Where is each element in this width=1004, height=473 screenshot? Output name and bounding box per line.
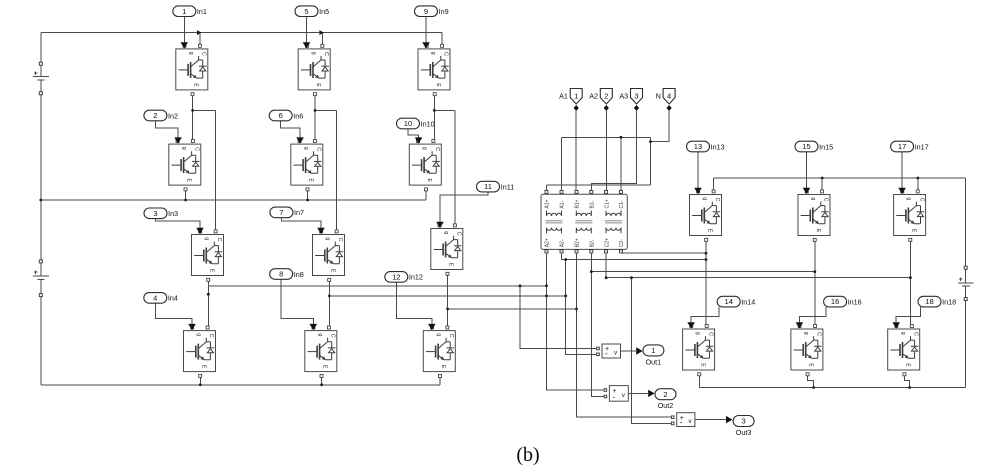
svg-text:11: 11 [484,182,492,191]
svg-text:15: 15 [802,142,810,151]
svg-text:13: 13 [694,142,702,151]
svg-text:Out1: Out1 [646,357,662,366]
svg-text:1: 1 [651,346,655,355]
svg-text:-: - [605,349,608,358]
svg-text:B2+: B2+ [575,238,581,247]
svg-text:In7: In7 [294,208,304,217]
svg-text:A2-: A2- [560,239,566,247]
svg-text:2: 2 [153,111,157,120]
svg-text:7: 7 [279,208,283,217]
svg-text:In10: In10 [421,119,435,128]
svg-text:In13: In13 [711,142,725,151]
svg-text:B2-: B2- [590,239,596,247]
svg-text:A2: A2 [589,91,598,100]
svg-text:5: 5 [304,7,308,16]
svg-text:In4: In4 [168,294,178,303]
svg-text:In15: In15 [819,142,833,151]
svg-text:N: N [656,91,661,100]
svg-text:4: 4 [667,92,671,101]
svg-text:Out2: Out2 [658,401,674,410]
svg-text:In3: In3 [168,209,178,218]
svg-text:In2: In2 [168,111,178,120]
svg-text:16: 16 [831,297,839,306]
svg-text:A2+: A2+ [545,238,551,247]
svg-text:In8: In8 [294,270,304,279]
svg-text:A1: A1 [559,91,568,100]
svg-text:B1-: B1- [590,200,596,208]
svg-text:9: 9 [424,7,428,16]
svg-text:C2+: C2+ [604,238,610,247]
svg-text:In5: In5 [319,7,329,16]
svg-text:C1+: C1+ [604,199,610,208]
svg-text:18: 18 [925,297,933,306]
svg-text:12: 12 [392,273,400,282]
svg-text:(b): (b) [516,444,539,466]
svg-text:1: 1 [574,92,578,101]
svg-text:B1+: B1+ [575,199,581,208]
svg-text:In18: In18 [942,297,956,306]
svg-text:2: 2 [604,92,608,101]
svg-text:In1: In1 [197,7,207,16]
svg-text:In9: In9 [439,7,449,16]
svg-text:-: - [680,418,683,427]
svg-text:8: 8 [279,270,283,279]
svg-text:C1-: C1- [619,200,625,208]
svg-text:A1-: A1- [560,200,566,208]
svg-text:4: 4 [153,294,157,303]
svg-text:1: 1 [182,7,186,16]
svg-text:-: - [612,392,615,401]
svg-text:2: 2 [663,390,667,399]
svg-text:14: 14 [724,297,732,306]
svg-text:10: 10 [404,119,412,128]
svg-text:In16: In16 [848,297,862,306]
svg-text:In12: In12 [409,273,423,282]
svg-text:3: 3 [634,92,638,101]
svg-text:C2-: C2- [619,239,625,247]
svg-text:In6: In6 [293,111,303,120]
svg-text:Out3: Out3 [736,428,752,437]
svg-text:3: 3 [741,417,745,426]
svg-text:3: 3 [153,209,157,218]
svg-text:In11: In11 [501,182,514,191]
svg-text:In17: In17 [915,142,929,151]
svg-text:6: 6 [279,111,283,120]
svg-text:A3: A3 [619,91,628,100]
svg-text:A1+: A1+ [545,199,551,208]
svg-text:17: 17 [898,142,906,151]
svg-text:In14: In14 [741,297,755,306]
